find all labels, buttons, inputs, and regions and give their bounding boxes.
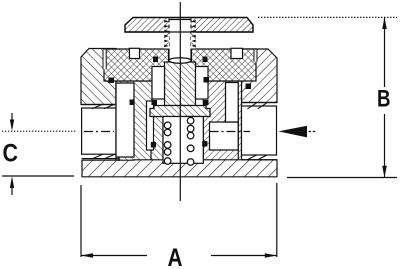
dim B arrow up: [382, 17, 387, 29]
bottom band: [82, 160, 277, 177]
left port outer bore: [82, 108, 116, 154]
right port thread line top: [242, 102, 278, 104]
dim A left extension line: [80, 185, 82, 257]
thread ticks right port top: [248, 103, 268, 109]
valve body left wall: [81, 49, 116, 105]
dim B top extension line: [258, 16, 397, 18]
o-ring seal cage right: [202, 141, 207, 147]
stem thread shank hatch left: [164, 33, 169, 49]
svg-text:B: B: [377, 86, 391, 113]
thread ticks left port top: [92, 104, 115, 108]
o-ring seal cage left: [151, 142, 156, 148]
right chamber: [210, 122, 239, 150]
valve body right wall: [242, 49, 278, 103]
stem bushing left: [152, 67, 165, 100]
left gallery: [116, 83, 134, 157]
spring coil right: [187, 117, 194, 165]
flow arrow: [278, 126, 307, 138]
stem thread teeth right: [191, 20, 196, 47]
dim C arrow top stem: [11, 113, 13, 128]
right port face second line: [237, 103, 239, 160]
dim A line left: [81, 255, 147, 257]
dim C arrow bottom stem: [11, 180, 13, 195]
thread ticks right port bottom: [247, 155, 267, 160]
right port thread line bottom: [242, 159, 278, 161]
o-ring seal bonnet left: [109, 78, 115, 84]
seat wall left of chamber: [116, 81, 152, 161]
dim B arrow down: [382, 166, 387, 178]
right mid block: [203, 81, 241, 163]
dim B line lower: [384, 114, 386, 178]
stem hole hidden line left: [168, 19, 170, 49]
right channel: [226, 83, 239, 123]
horizontal centerline in left port: [84, 131, 114, 133]
poppet shoulder: [150, 106, 210, 117]
dim A right extension line: [276, 183, 278, 257]
left port thread line top: [82, 104, 119, 106]
dim C arrow top head: [10, 120, 14, 131]
left port thread line bottom: [82, 158, 119, 160]
seat band left of cage: [151, 117, 163, 164]
left port face second line: [118, 105, 120, 162]
right port outer bore: [242, 106, 277, 155]
horizontal centerline right of arrow: [309, 131, 318, 133]
bonnet clearance slot right: [254, 50, 257, 62]
screw top line: [169, 19, 191, 21]
spring cage: [163, 117, 203, 164]
dim C arrow bottom head: [10, 176, 14, 188]
stem hole bottom arc: [169, 58, 191, 64]
stem side left solid: [168, 49, 170, 61]
stem hole through knob: [169, 19, 191, 61]
o-ring seal stem bottom right: [203, 100, 209, 105]
left slot: [147, 101, 154, 150]
stem side right solid: [190, 49, 192, 61]
o-ring seal stem mid right: [204, 77, 210, 83]
dim A arrow left: [81, 253, 93, 258]
stem bushing right: [196, 67, 209, 100]
vertical centerline: [179, 2, 181, 201]
dim A line right: [211, 255, 277, 257]
bonnet notch left: [130, 48, 140, 58]
dim B line upper: [384, 17, 386, 87]
stem thread teeth left: [164, 20, 169, 47]
stem column: [165, 62, 196, 106]
svg-text:A: A: [168, 244, 183, 269]
dim C bottom line: [2, 175, 74, 177]
stem thread shank hatch right: [191, 33, 196, 49]
dim B bottom extension line: [287, 177, 397, 179]
o-ring seal stem bottom left: [152, 100, 158, 105]
horizontal centerline dotted left: [2, 130, 77, 132]
o-ring seal seat left: [130, 100, 135, 106]
o-ring seal stem top left: [153, 57, 158, 63]
bonnet clearance slot left: [103, 50, 106, 69]
knob bottom edge across hole: [125, 31, 253, 33]
o-ring seal stem top right: [203, 57, 208, 63]
dim A arrow right: [265, 253, 277, 258]
horizontal centerline in right chamber: [210, 131, 251, 133]
thread ticks left port bottom: [92, 154, 115, 159]
stem hole hidden line right: [190, 19, 192, 49]
spring coil left: [164, 122, 171, 164]
knob: [125, 18, 253, 33]
o-ring seal bonnet right: [246, 84, 252, 90]
svg-text:C: C: [3, 140, 19, 168]
bonnet notch right: [231, 48, 243, 58]
bonnet nut right: [192, 49, 257, 81]
bonnet nut left: [104, 49, 169, 81]
